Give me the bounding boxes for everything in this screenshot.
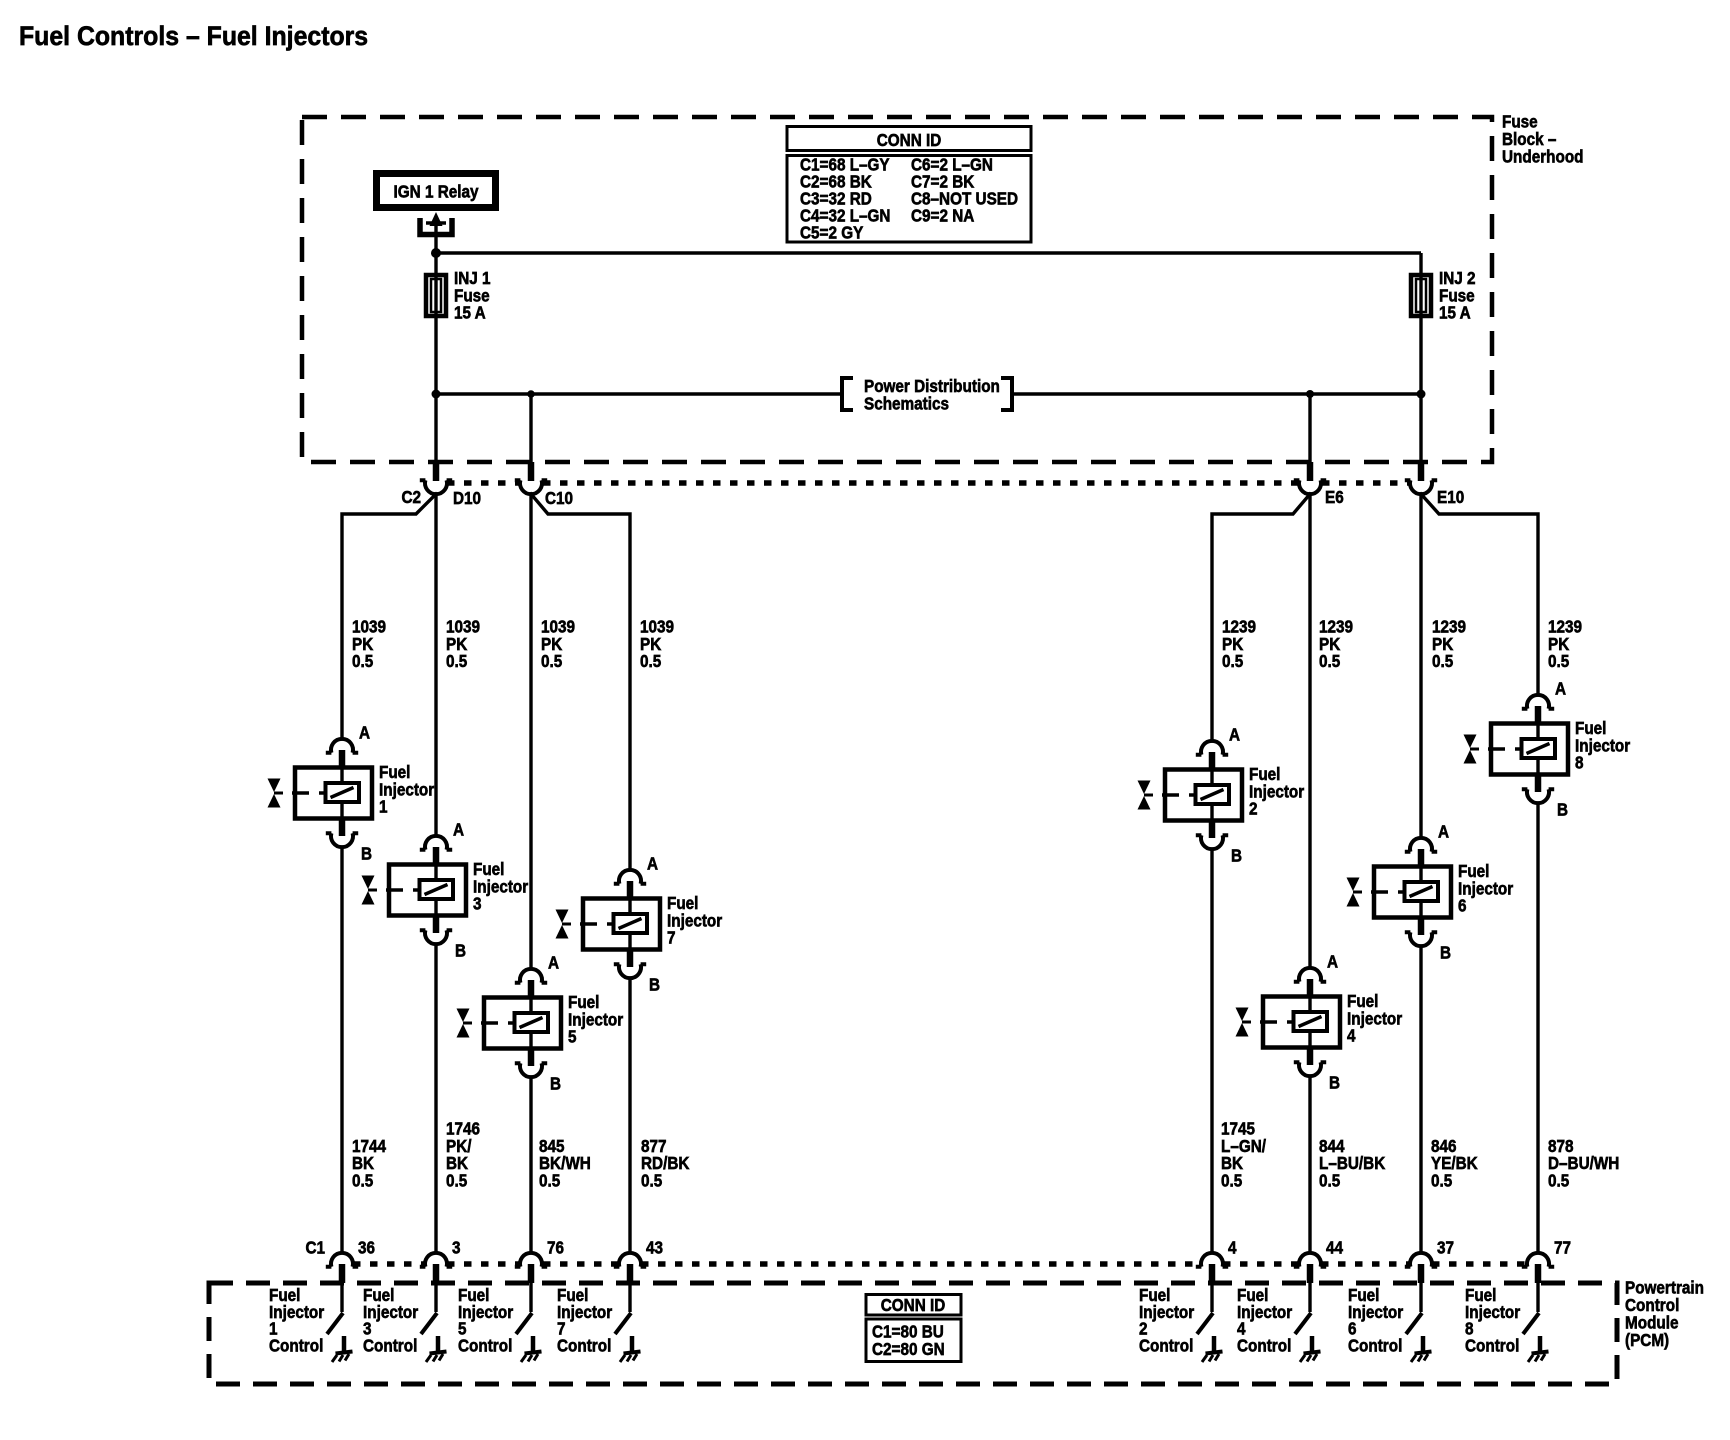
wire: injector 3 low side down to PCM (x=436)	[434, 944, 437, 1253]
svg-text:0.5: 0.5	[1221, 1170, 1242, 1190]
svg-text:Underhood: Underhood	[1502, 146, 1584, 166]
svg-text:0.5: 0.5	[352, 651, 373, 671]
connector pin stub (bold) x=1310	[1307, 462, 1314, 481]
svg-text:0.5: 0.5	[641, 1170, 662, 1190]
svg-text:B: B	[1231, 845, 1242, 865]
connector E6 (arc)	[1294, 480, 1326, 494]
ground (injector 3 driver)	[436, 1336, 441, 1352]
PCM boundary (dashed)	[209, 1283, 1617, 1384]
svg-text:0.5: 0.5	[1431, 1170, 1452, 1190]
svg-text:Control: Control	[269, 1335, 323, 1355]
ground (injector 5 driver)	[531, 1336, 536, 1352]
svg-text:7: 7	[667, 927, 676, 947]
connector pin stub (bold) x=531	[528, 462, 535, 481]
connector C2 / D10 (arc)	[420, 480, 452, 494]
connector pin stub (bold) x=436	[433, 462, 440, 481]
svg-text:CONN ID: CONN ID	[877, 130, 942, 150]
svg-text:Control: Control	[1465, 1335, 1519, 1355]
PCM pin 4 connector + injector 2 driver switch	[1196, 1253, 1228, 1267]
svg-text:IGN 1 Relay: IGN 1 Relay	[394, 181, 480, 201]
svg-text:76: 76	[547, 1237, 564, 1257]
connector E10 (arc)	[1405, 480, 1437, 494]
svg-text:C2: C2	[401, 487, 421, 507]
svg-text:43: 43	[646, 1237, 663, 1257]
svg-text:0.5: 0.5	[1548, 1170, 1569, 1190]
wire: straight down x=531	[529, 494, 532, 969]
fuse F1: INJ 1 Fuse 15 A	[426, 275, 446, 316]
wire: injector 7 low side down to PCM (x=630)	[628, 978, 631, 1253]
wire: injector 6 low side down to PCM (x=1421)	[1419, 946, 1422, 1253]
PCM pin 37 connector + injector 6 driver switch	[1405, 1253, 1437, 1267]
svg-text:Control: Control	[557, 1335, 611, 1355]
svg-text:Control: Control	[458, 1335, 512, 1355]
svg-text:C5=2 GY: C5=2 GY	[800, 222, 863, 242]
off-page bracket left	[842, 378, 853, 410]
svg-text:B: B	[455, 940, 466, 960]
svg-text:E10: E10	[1437, 487, 1464, 507]
svg-text:Control: Control	[363, 1335, 417, 1355]
svg-text:0.5: 0.5	[640, 651, 661, 671]
fuel injector 8 (solenoid valve, pins A/B)	[1522, 695, 1554, 709]
fuel injector 3 (solenoid valve, pins A/B)	[420, 836, 452, 850]
svg-text:5: 5	[568, 1026, 577, 1046]
junction dot: bus tap x=531	[527, 390, 535, 398]
svg-text:A: A	[1327, 951, 1338, 971]
wire: injector 2 low side down to PCM (x=1212)	[1210, 849, 1213, 1253]
wire: C2 branch jog to x=342	[342, 494, 436, 739]
svg-text:3: 3	[473, 893, 482, 913]
CONN ID table (PCM)	[866, 1295, 961, 1316]
dotted connector face line (fuse block outputs)	[447, 480, 519, 486]
svg-text:2: 2	[1249, 798, 1258, 818]
svg-text:D10: D10	[453, 488, 481, 508]
fuel injector 5 (solenoid valve, pins A/B)	[515, 969, 547, 983]
svg-text:Control: Control	[1139, 1335, 1193, 1355]
wire: injector 8 low side down to PCM (x=1538)	[1536, 803, 1539, 1253]
svg-text:0.5: 0.5	[1319, 651, 1340, 671]
svg-text:A: A	[1229, 724, 1240, 744]
svg-text:0.5: 0.5	[446, 1170, 467, 1190]
svg-text:A: A	[1555, 678, 1566, 698]
svg-text:B: B	[1440, 942, 1451, 962]
ground (injector 4 driver)	[1310, 1336, 1315, 1352]
svg-text:A: A	[359, 722, 370, 742]
svg-text:0.5: 0.5	[541, 651, 562, 671]
wire: relay down through INJ 1 fuse to connector stub (x=436)	[434, 224, 437, 462]
svg-text:(PCM): (PCM)	[1625, 1330, 1669, 1350]
junction dot: bus at x=1421	[1417, 390, 1426, 399]
svg-text:C10: C10	[545, 488, 573, 508]
svg-text:0.5: 0.5	[1432, 651, 1453, 671]
svg-text:C1: C1	[305, 1237, 325, 1257]
svg-text:1: 1	[379, 796, 388, 816]
connector pin stub (bold) x=1421	[1418, 462, 1425, 481]
svg-text:0.5: 0.5	[1548, 651, 1569, 671]
wire: straight down x=1310	[1308, 494, 1311, 968]
svg-text:15 A: 15 A	[454, 302, 486, 322]
wire: straight down x=1421	[1419, 494, 1422, 838]
svg-text:C2=80 GN: C2=80 GN	[872, 1339, 945, 1359]
svg-text:E6: E6	[1325, 487, 1344, 507]
power distribution bus (right segment)	[1012, 392, 1421, 395]
PCM pin 77 connector + injector 8 driver switch	[1522, 1253, 1554, 1267]
fuse F2: INJ 2 Fuse 15 A	[1411, 275, 1431, 316]
svg-text:Fuel Controls – Fuel Injectors: Fuel Controls – Fuel Injectors	[19, 22, 368, 51]
svg-text:C9=2 NA: C9=2 NA	[911, 205, 974, 225]
svg-text:6: 6	[1458, 895, 1467, 915]
wire: E10 jog to x=1538	[1421, 494, 1538, 695]
dotted connector face line (PCM inputs)	[353, 1261, 425, 1267]
svg-text:A: A	[548, 952, 559, 972]
CONN ID table (fuse block)	[787, 127, 1031, 151]
PCM pin 44 connector + injector 4 driver switch	[1294, 1253, 1326, 1267]
power distribution bus (left segment)	[436, 392, 840, 395]
wire: C10 jog to x=630	[531, 494, 630, 870]
fuel injector 6 (solenoid valve, pins A/B)	[1405, 838, 1437, 852]
ground (injector 1 driver)	[342, 1336, 347, 1352]
wire: E6 jog to x=1212	[1212, 494, 1310, 741]
junction dot: bus at x=436	[432, 390, 441, 399]
off-page bracket right	[1001, 378, 1012, 410]
svg-text:4: 4	[1347, 1025, 1356, 1045]
svg-text:Schematics: Schematics	[864, 393, 949, 413]
ground (injector 8 driver)	[1538, 1336, 1543, 1352]
svg-text:CONN ID: CONN ID	[881, 1295, 946, 1315]
fuel injector 7 (solenoid valve, pins A/B)	[614, 870, 646, 884]
svg-text:Control: Control	[1348, 1335, 1402, 1355]
wire: injector 4 low side down to PCM (x=1310)	[1308, 1076, 1311, 1253]
svg-text:44: 44	[1326, 1237, 1344, 1257]
svg-text:0.5: 0.5	[1222, 651, 1243, 671]
fuse block - underhood boundary (dashed)	[302, 117, 1492, 462]
wire: D10 straight down x=436	[434, 494, 437, 836]
ground (injector 6 driver)	[1421, 1336, 1426, 1352]
svg-text:15 A: 15 A	[1439, 302, 1471, 322]
svg-text:A: A	[1438, 821, 1449, 841]
PCM pin 76 connector + injector 5 driver switch	[515, 1253, 547, 1267]
wire: bus drop x=531 inside fuse block	[529, 394, 532, 462]
relay K1: IGN 1 Relay box	[377, 174, 496, 208]
wire: injector 1 low side down to PCM (x=342)	[340, 847, 343, 1253]
fuel injector 2 (solenoid valve, pins A/B)	[1196, 741, 1228, 755]
svg-text:B: B	[649, 974, 660, 994]
svg-text:B: B	[550, 1073, 561, 1093]
PCM pin 3 connector + injector 3 driver switch	[420, 1253, 452, 1267]
svg-text:0.5: 0.5	[539, 1170, 560, 1190]
svg-text:B: B	[361, 843, 372, 863]
wire: injector 5 low side down to PCM (x=531)	[529, 1077, 532, 1253]
svg-text:0.5: 0.5	[1319, 1170, 1340, 1190]
svg-text:B: B	[1557, 799, 1568, 819]
wire: drop to INJ 2 fuse (x=1421)	[1419, 253, 1422, 462]
svg-text:37: 37	[1437, 1237, 1454, 1257]
svg-text:3: 3	[452, 1237, 461, 1257]
PCM pin 36 connector + injector 1 driver switch	[326, 1253, 358, 1267]
svg-text:B: B	[1329, 1072, 1340, 1092]
svg-text:36: 36	[358, 1237, 375, 1257]
wire: top feed bus y=253 from fuse1 to fuse2 drop	[436, 251, 1421, 254]
svg-text:0.5: 0.5	[352, 1170, 373, 1190]
junction dot: bus tap x=1310	[1306, 390, 1314, 398]
svg-text:Control: Control	[1237, 1335, 1291, 1355]
svg-text:A: A	[647, 853, 658, 873]
ground (injector 2 driver)	[1212, 1336, 1217, 1352]
svg-text:8: 8	[1575, 752, 1584, 772]
fuel injector 1 (solenoid valve, pins A/B)	[326, 739, 358, 753]
ground (injector 7 driver)	[630, 1336, 635, 1352]
PCM pin 43 connector + injector 7 driver switch	[614, 1253, 646, 1267]
IGN 1 relay terminal connector (socket + arrow)	[420, 218, 452, 235]
svg-text:4: 4	[1228, 1237, 1237, 1257]
wire: bus drop x=1310 inside fuse block	[1308, 394, 1311, 462]
svg-text:77: 77	[1554, 1237, 1571, 1257]
junction dot: relay feed / top bus	[431, 248, 441, 258]
svg-text:A: A	[453, 819, 464, 839]
svg-text:0.5: 0.5	[446, 651, 467, 671]
fuel injector 4 (solenoid valve, pins A/B)	[1294, 968, 1326, 982]
connector C10 (arc)	[515, 480, 547, 494]
